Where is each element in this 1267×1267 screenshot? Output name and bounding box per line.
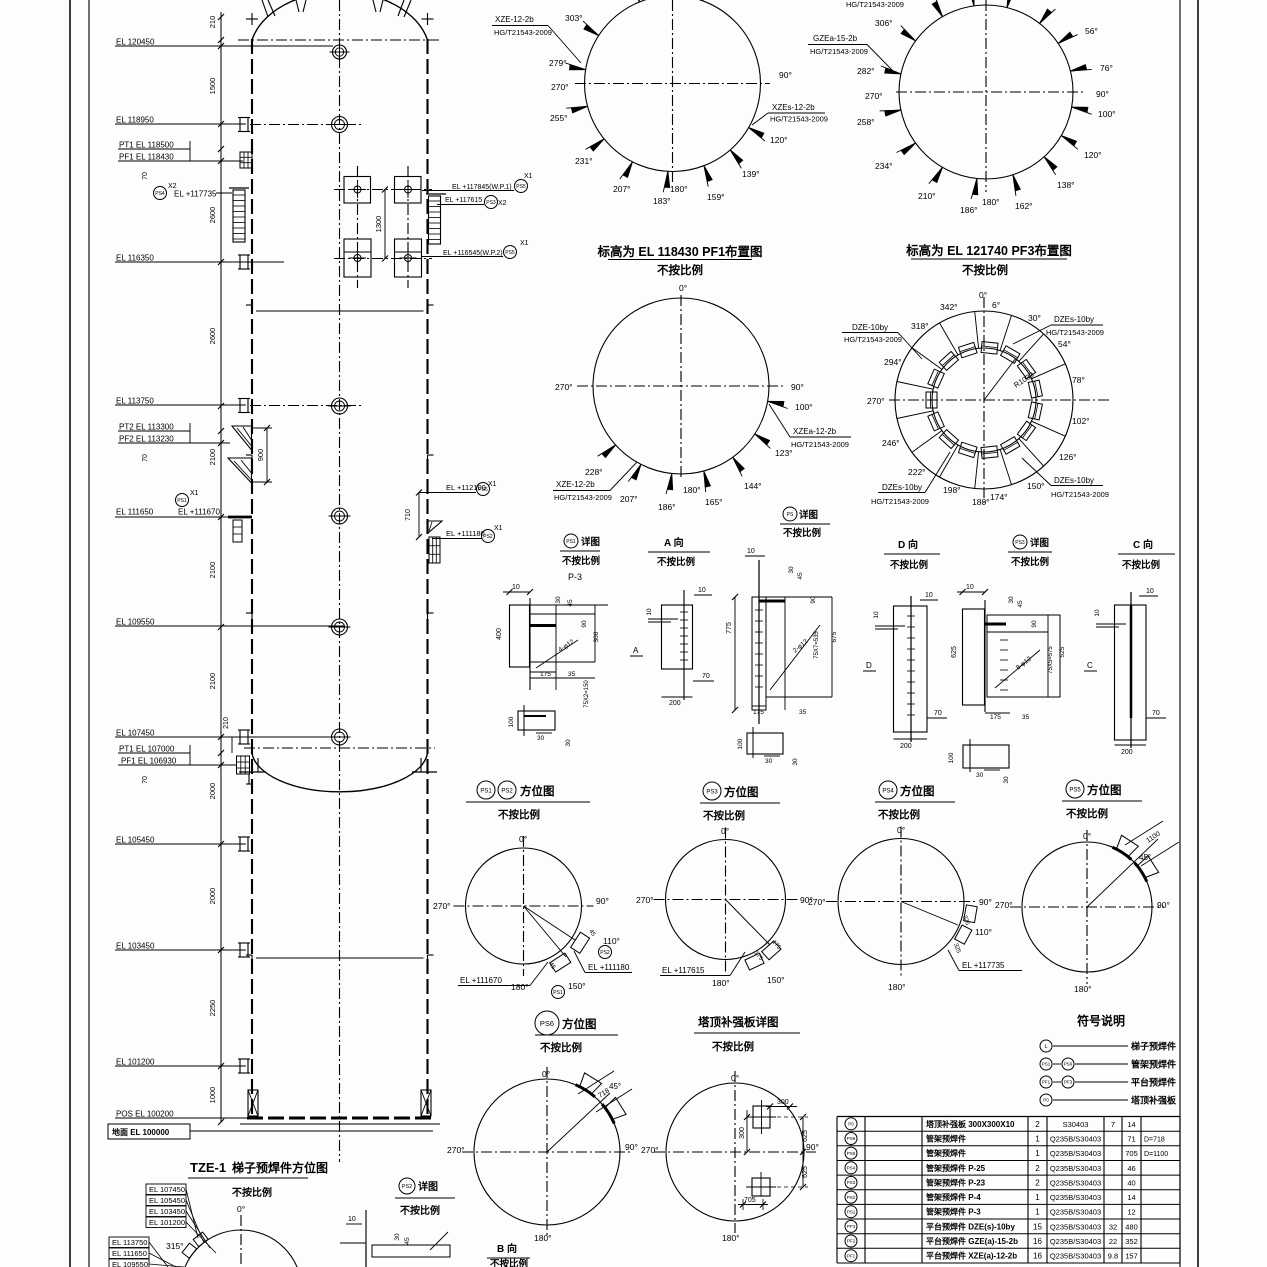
svg-text:PS: PS bbox=[787, 512, 794, 518]
svg-text:PS1: PS1 bbox=[847, 1209, 856, 1214]
svg-text:246°: 246° bbox=[882, 438, 900, 448]
svg-text:PS4: PS4 bbox=[847, 1166, 856, 1171]
PS3 orientation header bbox=[703, 782, 721, 800]
svg-text:270°: 270° bbox=[551, 82, 569, 92]
svg-text:16: 16 bbox=[1033, 1237, 1042, 1246]
svg-text:4-φ12: 4-φ12 bbox=[557, 638, 576, 653]
girth weld hooks y458 bbox=[246, 454, 252, 456]
svg-text:315°: 315° bbox=[166, 1241, 184, 1251]
svg-text:EL 105450: EL 105450 bbox=[116, 836, 155, 845]
svg-text:管架预焊件 P-4: 管架预焊件 P-4 bbox=[926, 1192, 981, 1202]
svg-text:705: 705 bbox=[744, 1197, 756, 1204]
svg-text:228°: 228° bbox=[585, 467, 603, 477]
svg-text:PS4: PS4 bbox=[882, 788, 894, 794]
PS4 orientation circle bbox=[838, 839, 964, 965]
svg-text:270°: 270° bbox=[995, 900, 1013, 910]
svg-text:174°: 174° bbox=[990, 492, 1008, 502]
svg-text:10: 10 bbox=[698, 587, 706, 594]
svg-text:PF2 EL 113230: PF2 EL 113230 bbox=[119, 435, 174, 444]
TZE-1 lugs bbox=[182, 1243, 197, 1258]
svg-text:100: 100 bbox=[737, 738, 744, 749]
svg-text:180°: 180° bbox=[982, 197, 1000, 207]
PS detail header right of PF2 bbox=[783, 507, 797, 521]
detail PS3 header bbox=[1013, 535, 1027, 549]
svg-text:2600: 2600 bbox=[208, 207, 217, 224]
svg-text:306°: 306° bbox=[875, 18, 893, 28]
pad W.P.2 right bbox=[395, 239, 422, 277]
grid flange EL118430 bbox=[240, 152, 252, 168]
svg-text:EL 116350: EL 116350 bbox=[116, 254, 154, 263]
PS4 orientation header bbox=[879, 781, 897, 799]
svg-text:100: 100 bbox=[948, 752, 955, 763]
PF2 nozzle ticks bbox=[768, 401, 784, 406]
ring R1030 label bbox=[984, 358, 1016, 400]
svg-text:56°: 56° bbox=[1085, 26, 1098, 36]
svg-text:不按比例: 不按比例 bbox=[232, 1186, 272, 1199]
svg-text:35: 35 bbox=[568, 671, 576, 678]
svg-text:9.8: 9.8 bbox=[1108, 1252, 1118, 1261]
svg-text:PS1: PS1 bbox=[177, 498, 187, 504]
svg-text:157: 157 bbox=[1125, 1252, 1138, 1261]
TZE-1 EL label stack upper bbox=[146, 1184, 186, 1195]
svg-text:70: 70 bbox=[142, 454, 149, 462]
svg-text:45°: 45° bbox=[1139, 853, 1151, 862]
PS6 orientation header bbox=[535, 1011, 559, 1035]
TZE-1 circle bbox=[180, 1230, 302, 1267]
svg-text:EL 101200: EL 101200 bbox=[116, 1058, 155, 1067]
girth weld hooks y616 bbox=[246, 612, 252, 614]
svg-text:0°: 0° bbox=[897, 825, 905, 835]
svg-text:EL +117615: EL +117615 bbox=[662, 966, 705, 975]
detail PS1 lower section bbox=[518, 711, 555, 730]
svg-text:EL 103450: EL 103450 bbox=[149, 1207, 185, 1216]
svg-text:162°: 162° bbox=[1015, 201, 1033, 211]
svg-text:Q235B/S30403: Q235B/S30403 bbox=[1050, 1135, 1101, 1144]
svg-text:PS2: PS2 bbox=[501, 788, 513, 794]
svg-text:PS3: PS3 bbox=[486, 200, 496, 206]
svg-text:144°: 144° bbox=[744, 481, 762, 491]
svg-text:标高为 EL 118430 PF1布置图: 标高为 EL 118430 PF1布置图 bbox=[596, 244, 762, 259]
svg-text:255°: 255° bbox=[550, 113, 568, 123]
parts table bbox=[837, 1116, 1180, 1118]
svg-text:EL 120450: EL 120450 bbox=[116, 38, 155, 47]
svg-text:不按比例: 不按比例 bbox=[400, 1204, 440, 1217]
svg-text:46: 46 bbox=[1127, 1164, 1135, 1173]
svg-text:14: 14 bbox=[1127, 1193, 1135, 1202]
dimension line column bbox=[220, 12, 222, 1122]
svg-text:10: 10 bbox=[512, 584, 520, 591]
svg-text:318°: 318° bbox=[911, 321, 929, 331]
PS5 orientation circle bbox=[1022, 842, 1152, 972]
svg-text:100°: 100° bbox=[795, 402, 813, 412]
svg-text:150°: 150° bbox=[1027, 481, 1045, 491]
svg-text:710: 710 bbox=[405, 509, 412, 521]
pad W.P.2 left bbox=[344, 239, 371, 277]
svg-text:279°: 279° bbox=[549, 58, 567, 68]
svg-text:HG/T21543-2009: HG/T21543-2009 bbox=[844, 335, 902, 344]
svg-text:625: 625 bbox=[802, 1130, 809, 1142]
svg-text:不按比例: 不按比例 bbox=[1011, 556, 1049, 568]
svg-text:PS1: PS1 bbox=[480, 788, 492, 794]
svg-text:TZE-1: TZE-1 bbox=[190, 1160, 226, 1175]
svg-text:PF1: PF1 bbox=[847, 1253, 856, 1258]
svg-text:75X5=575: 75X5=575 bbox=[1048, 646, 1054, 674]
svg-text:294°: 294° bbox=[884, 357, 902, 367]
svg-text:0°: 0° bbox=[519, 834, 527, 844]
svg-text:B 向: B 向 bbox=[497, 1242, 517, 1255]
svg-text:625: 625 bbox=[802, 1166, 809, 1178]
svg-text:不按比例: 不按比例 bbox=[498, 808, 540, 821]
svg-text:342°: 342° bbox=[940, 302, 958, 312]
svg-text:管架预焊件 P-3: 管架预焊件 P-3 bbox=[926, 1207, 981, 1217]
svg-text:PS5: PS5 bbox=[516, 184, 526, 190]
svg-text:180°: 180° bbox=[722, 1233, 740, 1243]
svg-text:HG/T21543-2009: HG/T21543-2009 bbox=[871, 497, 929, 506]
svg-text:梯子预焊件: 梯子预焊件 bbox=[1131, 1041, 1176, 1052]
svg-text:32: 32 bbox=[1109, 1222, 1117, 1231]
svg-text:200: 200 bbox=[1121, 749, 1133, 756]
svg-text:梯子预焊件方位图: 梯子预焊件方位图 bbox=[232, 1160, 328, 1175]
svg-text:207°: 207° bbox=[613, 184, 631, 194]
detail PS1 header bbox=[564, 534, 578, 548]
svg-text:不按比例: 不按比例 bbox=[540, 1041, 582, 1054]
svg-text:30°: 30° bbox=[1028, 313, 1041, 323]
reinforcement pads bbox=[753, 1106, 770, 1128]
svg-text:30: 30 bbox=[537, 735, 545, 742]
svg-text:30: 30 bbox=[976, 772, 984, 779]
svg-text:不按比例: 不按比例 bbox=[657, 263, 703, 277]
svg-text:1300: 1300 bbox=[374, 216, 383, 233]
svg-text:90°: 90° bbox=[806, 1142, 819, 1152]
svg-text:EL 113750: EL 113750 bbox=[112, 1238, 147, 1247]
svg-text:PS3: PS3 bbox=[706, 789, 718, 795]
ring outer circle bbox=[895, 311, 1073, 489]
svg-text:76°: 76° bbox=[1100, 63, 1113, 73]
svg-text:35: 35 bbox=[1022, 714, 1030, 721]
svg-text:150°: 150° bbox=[568, 981, 586, 991]
svg-text:管架预焊件: 管架预焊件 bbox=[1131, 1059, 1176, 1070]
svg-text:1: 1 bbox=[1035, 1208, 1040, 1217]
svg-text:EL 107450: EL 107450 bbox=[116, 729, 155, 738]
detail PS3 lower section bbox=[963, 745, 1009, 768]
svg-text:XZE-12-2b: XZE-12-2b bbox=[556, 480, 595, 489]
svg-text:X1: X1 bbox=[494, 525, 503, 532]
dim 1300 between pads bbox=[384, 190, 386, 259]
svg-text:2: 2 bbox=[1035, 1178, 1040, 1187]
svg-text:EL 103450: EL 103450 bbox=[116, 942, 155, 951]
svg-text:PS5: PS5 bbox=[847, 1151, 856, 1156]
svg-text:2-φ12: 2-φ12 bbox=[792, 638, 810, 655]
svg-text:EL 109550: EL 109550 bbox=[116, 618, 155, 627]
svg-text:231°: 231° bbox=[575, 156, 593, 166]
svg-text:0°: 0° bbox=[542, 1069, 550, 1079]
svg-text:75X7=535: 75X7=535 bbox=[814, 631, 820, 659]
sheet right border bbox=[1179, 0, 1181, 1267]
svg-text:EL 113750: EL 113750 bbox=[116, 397, 154, 406]
svg-text:270°: 270° bbox=[865, 91, 883, 101]
table row PF2 bbox=[845, 1235, 857, 1247]
svg-text:30: 30 bbox=[765, 758, 773, 765]
svg-text:X1: X1 bbox=[190, 490, 199, 497]
svg-text:75X2=150: 75X2=150 bbox=[584, 680, 590, 708]
svg-text:GZEa-15-2b: GZEa-15-2b bbox=[813, 34, 858, 43]
svg-text:100: 100 bbox=[508, 716, 515, 727]
dim 710 bbox=[418, 493, 420, 538]
vessel shell left wall bbox=[251, 39, 253, 1118]
svg-text:C 向: C 向 bbox=[1133, 538, 1153, 551]
vessel shell right wall bbox=[426, 39, 428, 1118]
PS6 dims 718 45 bbox=[578, 1071, 614, 1094]
detail A-dir drawing bbox=[662, 605, 693, 669]
svg-text:110°: 110° bbox=[975, 927, 992, 937]
svg-text:625: 625 bbox=[951, 646, 958, 658]
svg-text:270°: 270° bbox=[555, 382, 573, 392]
PS1 PS2 orientation header bbox=[477, 781, 495, 799]
svg-text:EL 107450: EL 107450 bbox=[149, 1185, 185, 1194]
svg-text:方位图: 方位图 bbox=[1087, 783, 1122, 797]
svg-text:10: 10 bbox=[1146, 588, 1154, 595]
svg-text:不按比例: 不按比例 bbox=[490, 1258, 528, 1267]
svg-text:EL 111650: EL 111650 bbox=[112, 1249, 147, 1258]
svg-text:不按比例: 不按比例 bbox=[783, 527, 821, 539]
svg-text:180°: 180° bbox=[888, 982, 906, 992]
svg-text:XZE-12-2b: XZE-12-2b bbox=[495, 15, 534, 24]
svg-text:210: 210 bbox=[208, 16, 217, 29]
svg-text:PF3: PF3 bbox=[1064, 1080, 1073, 1085]
svg-text:45: 45 bbox=[587, 929, 596, 938]
svg-text:HG/T21543-2009: HG/T21543-2009 bbox=[494, 28, 552, 37]
table row P0 bbox=[845, 1118, 857, 1130]
svg-text:90: 90 bbox=[581, 620, 588, 628]
svg-text:1: 1 bbox=[1035, 1149, 1040, 1158]
svg-text:R1030: R1030 bbox=[1012, 370, 1035, 390]
table row PS6 bbox=[845, 1133, 857, 1145]
manway circle EL120450 bbox=[333, 45, 347, 59]
svg-text:POS EL 100200: POS EL 100200 bbox=[116, 1110, 174, 1119]
svg-text:PF2: PF2 bbox=[847, 1239, 856, 1244]
legend ladder preweld bbox=[1040, 1040, 1052, 1052]
svg-text:不按比例: 不按比例 bbox=[657, 556, 695, 568]
svg-text:45: 45 bbox=[547, 962, 556, 971]
svg-text:15: 15 bbox=[1033, 1222, 1042, 1231]
TZE-1 EL label stack lower bbox=[109, 1237, 149, 1248]
svg-text:详图: 详图 bbox=[799, 509, 818, 521]
bottom head side lugs bbox=[239, 771, 266, 773]
svg-text:16: 16 bbox=[1033, 1252, 1042, 1261]
svg-text:480: 480 bbox=[1125, 1222, 1138, 1231]
svg-text:222°: 222° bbox=[908, 467, 926, 477]
PF2 layout circle bbox=[593, 298, 769, 474]
svg-text:PS3: PS3 bbox=[847, 1180, 856, 1185]
detail D-dir drawing bbox=[894, 606, 928, 732]
svg-text:325: 325 bbox=[952, 943, 961, 955]
sheet left border bbox=[69, 0, 71, 1267]
svg-text:270°: 270° bbox=[867, 396, 885, 406]
svg-text:180°: 180° bbox=[712, 978, 730, 988]
svg-text:PF3: PF3 bbox=[847, 1224, 856, 1229]
svg-text:300: 300 bbox=[593, 631, 600, 642]
svg-text:详图: 详图 bbox=[581, 536, 600, 548]
svg-text:PS1: PS1 bbox=[566, 539, 576, 545]
svg-text:EL +117845(W.P.1): EL +117845(W.P.1) bbox=[452, 184, 512, 191]
svg-text:30: 30 bbox=[555, 596, 562, 604]
anchor chair left bbox=[248, 1090, 258, 1116]
svg-text:2100: 2100 bbox=[208, 562, 217, 579]
flange EL118950 bbox=[238, 117, 250, 119]
svg-text:P-3: P-3 bbox=[568, 572, 582, 582]
vessel top head bbox=[252, 0, 428, 40]
svg-text:Q235B/S30403: Q235B/S30403 bbox=[1050, 1164, 1101, 1173]
svg-text:45: 45 bbox=[567, 599, 574, 607]
svg-text:方位图: 方位图 bbox=[562, 1017, 597, 1031]
svg-text:0°: 0° bbox=[979, 290, 987, 300]
PS3 orientation circle bbox=[666, 840, 786, 960]
svg-text:1: 1 bbox=[1035, 1135, 1040, 1144]
svg-text:2: 2 bbox=[1035, 1164, 1040, 1173]
svg-text:2100: 2100 bbox=[208, 673, 217, 690]
svg-text:X2: X2 bbox=[498, 200, 507, 207]
svg-text:198°: 198° bbox=[943, 485, 961, 495]
grid flange EL106930 bbox=[237, 756, 250, 774]
svg-text:HG/T21543-2009: HG/T21543-2009 bbox=[1046, 328, 1104, 337]
svg-text:Q235B/S30403: Q235B/S30403 bbox=[1050, 1222, 1101, 1231]
svg-text:P0: P0 bbox=[1043, 1098, 1049, 1103]
svg-text:PT1 EL 107000: PT1 EL 107000 bbox=[119, 745, 175, 754]
svg-text:1100: 1100 bbox=[1145, 831, 1162, 845]
pad W.P.1 right bbox=[395, 177, 422, 204]
PF2 crosshair bbox=[577, 385, 785, 387]
legend top plate bbox=[1040, 1094, 1052, 1106]
table row PS3 bbox=[845, 1176, 857, 1188]
PF1 layout circle bbox=[585, 0, 761, 172]
svg-text:303°: 303° bbox=[565, 13, 583, 23]
svg-text:210: 210 bbox=[223, 717, 230, 729]
table row PF1 bbox=[845, 1250, 857, 1262]
svg-text:35: 35 bbox=[799, 709, 807, 716]
svg-text:PS6: PS6 bbox=[540, 1019, 554, 1028]
PS1 PS2 orientation circle bbox=[466, 848, 582, 964]
svg-text:2600: 2600 bbox=[208, 328, 217, 345]
svg-text:675: 675 bbox=[831, 631, 838, 642]
detail PS3 drawing bbox=[963, 609, 985, 705]
svg-text:70: 70 bbox=[142, 776, 149, 784]
svg-text:525: 525 bbox=[1059, 646, 1066, 657]
svg-text:180°: 180° bbox=[683, 485, 701, 495]
dim 900 gussets bbox=[266, 428, 268, 482]
svg-text:30: 30 bbox=[394, 1233, 401, 1241]
svg-text:10: 10 bbox=[873, 611, 880, 619]
table row PF3 bbox=[845, 1220, 857, 1232]
svg-text:123°: 123° bbox=[775, 448, 793, 458]
svg-text:C: C bbox=[1087, 661, 1093, 670]
svg-text:X1: X1 bbox=[524, 173, 533, 180]
legend pipe-rack preweld bbox=[1040, 1058, 1052, 1070]
svg-text:300: 300 bbox=[777, 1099, 789, 1106]
svg-text:Q235B/S30403: Q235B/S30403 bbox=[1050, 1149, 1101, 1158]
svg-text:S30403: S30403 bbox=[1063, 1120, 1089, 1129]
svg-text:方位图: 方位图 bbox=[724, 785, 759, 799]
svg-text:90°: 90° bbox=[979, 897, 992, 907]
svg-text:282°: 282° bbox=[857, 66, 875, 76]
PS1 symbol EL111650 label bbox=[176, 494, 189, 507]
svg-text:102°: 102° bbox=[1072, 416, 1090, 426]
svg-text:120°: 120° bbox=[770, 135, 788, 145]
svg-text:管架预焊件: 管架预焊件 bbox=[926, 1134, 966, 1144]
svg-text:A 向: A 向 bbox=[664, 536, 684, 549]
svg-text:900: 900 bbox=[256, 449, 265, 462]
svg-text:不按比例: 不按比例 bbox=[890, 559, 928, 571]
svg-text:14: 14 bbox=[1127, 1120, 1135, 1129]
PF1 nozzle ticks bbox=[584, 25, 599, 36]
svg-text:EL +117735: EL +117735 bbox=[174, 190, 217, 199]
svg-text:110°: 110° bbox=[603, 936, 620, 946]
svg-text:7: 7 bbox=[1111, 1120, 1115, 1129]
svg-text:258°: 258° bbox=[857, 117, 875, 127]
svg-text:方位图: 方位图 bbox=[900, 784, 935, 798]
svg-text:平台预焊件: 平台预焊件 bbox=[1131, 1077, 1176, 1088]
svg-text:PS5: PS5 bbox=[505, 250, 515, 256]
svg-text:0°: 0° bbox=[679, 283, 687, 293]
svg-text:不按比例: 不按比例 bbox=[712, 1040, 754, 1053]
top reinforcement plate circle bbox=[666, 1083, 804, 1221]
svg-text:PS2: PS2 bbox=[402, 1184, 412, 1190]
svg-text:90°: 90° bbox=[791, 382, 804, 392]
svg-text:HG/T21543-2009: HG/T21543-2009 bbox=[1051, 490, 1109, 499]
svg-text:90°: 90° bbox=[779, 70, 792, 80]
bottom head tangent line bbox=[244, 747, 435, 749]
svg-text:Q235B/S30403: Q235B/S30403 bbox=[1050, 1237, 1101, 1246]
svg-text:22: 22 bbox=[1109, 1237, 1117, 1246]
PS2 lug bbox=[571, 932, 590, 953]
svg-text:不按比例: 不按比例 bbox=[1122, 559, 1160, 571]
manway circle EL113750 bbox=[332, 398, 348, 414]
svg-text:180°: 180° bbox=[534, 1233, 552, 1243]
svg-text:PS6: PS6 bbox=[847, 1136, 856, 1141]
dim 210 near EL107450 bbox=[231, 737, 233, 753]
svg-text:270°: 270° bbox=[433, 901, 451, 911]
svg-text:45: 45 bbox=[404, 1237, 411, 1245]
svg-text:78°: 78° bbox=[1072, 375, 1085, 385]
svg-text:2100: 2100 bbox=[208, 449, 217, 466]
svg-text:DZEs-10by: DZEs-10by bbox=[1054, 476, 1094, 485]
svg-text:L: L bbox=[1044, 1044, 1047, 1050]
svg-text:45°: 45° bbox=[609, 1082, 621, 1091]
girth weld seam y305 bbox=[246, 304, 252, 306]
detail PS-mid lower section bbox=[747, 733, 783, 754]
svg-text:200: 200 bbox=[669, 700, 681, 707]
svg-text:Q235B/S30403: Q235B/S30403 bbox=[1050, 1178, 1101, 1187]
svg-text:管架预焊件: 管架预焊件 bbox=[926, 1148, 966, 1158]
right gusset EL112100 bbox=[428, 521, 442, 533]
svg-text:71: 71 bbox=[1127, 1135, 1135, 1144]
svg-text:775: 775 bbox=[726, 622, 733, 634]
svg-text:PS2: PS2 bbox=[600, 950, 610, 956]
support pad EL111670 bbox=[228, 516, 252, 519]
svg-text:X1: X1 bbox=[520, 240, 529, 247]
svg-text:10: 10 bbox=[925, 592, 933, 599]
svg-text:Q235B/S30403: Q235B/S30403 bbox=[1050, 1193, 1101, 1202]
PS5 dims 1100 45 bbox=[1125, 821, 1163, 845]
svg-text:70: 70 bbox=[1152, 710, 1160, 717]
svg-text:HG/T21543-2009: HG/T21543-2009 bbox=[554, 493, 612, 502]
svg-text:1500: 1500 bbox=[208, 78, 217, 95]
svg-text:0°: 0° bbox=[1083, 831, 1091, 841]
head weld cross ticks bbox=[246, 18, 258, 20]
girth weld seam y958 bbox=[256, 957, 424, 959]
svg-text:400: 400 bbox=[496, 628, 503, 640]
svg-text:EL +117615: EL +117615 bbox=[445, 197, 482, 204]
svg-text:90: 90 bbox=[1031, 620, 1038, 628]
